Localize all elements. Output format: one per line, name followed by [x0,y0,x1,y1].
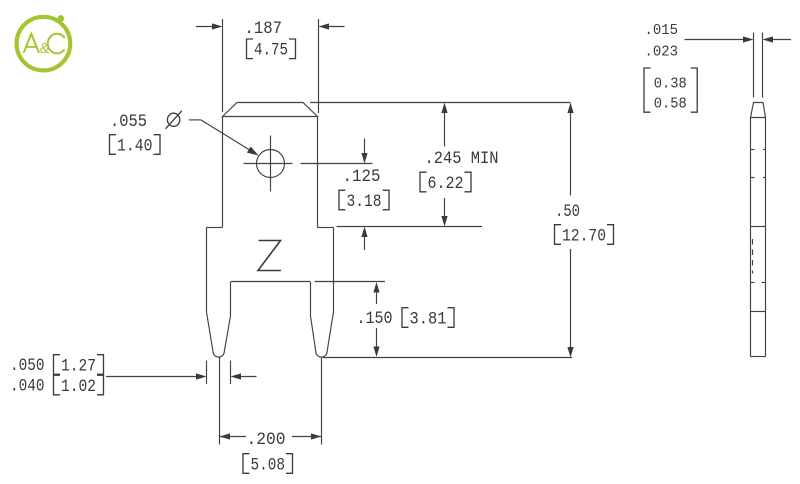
svg-text:.200: .200 [247,430,286,450]
svg-text:.015: .015 [645,22,679,39]
svg-text:1.02: 1.02 [61,377,96,397]
svg-text:.50: .50 [555,202,580,222]
svg-text:&: & [40,41,50,57]
svg-text:.187: .187 [245,19,283,39]
svg-text:1.27: 1.27 [61,356,96,376]
svg-text:.050: .050 [10,356,45,376]
svg-text:.245 MIN: .245 MIN [425,149,499,169]
svg-text:1.40: 1.40 [117,136,153,156]
svg-text:0.38: 0.38 [654,75,687,92]
svg-text:.055: .055 [110,112,147,132]
svg-text:4.75: 4.75 [254,41,288,61]
svg-text:.125: .125 [343,167,381,187]
svg-text:.150: .150 [357,309,393,329]
svg-text:.023: .023 [645,44,679,61]
svg-text:0.58: 0.58 [654,96,687,113]
svg-text:12.70: 12.70 [562,226,606,246]
svg-text:.040: .040 [10,377,45,397]
svg-text:3.81: 3.81 [410,309,447,329]
svg-text:3.18: 3.18 [347,192,382,212]
svg-text:5.08: 5.08 [251,455,286,475]
svg-text:6.22: 6.22 [428,174,464,194]
